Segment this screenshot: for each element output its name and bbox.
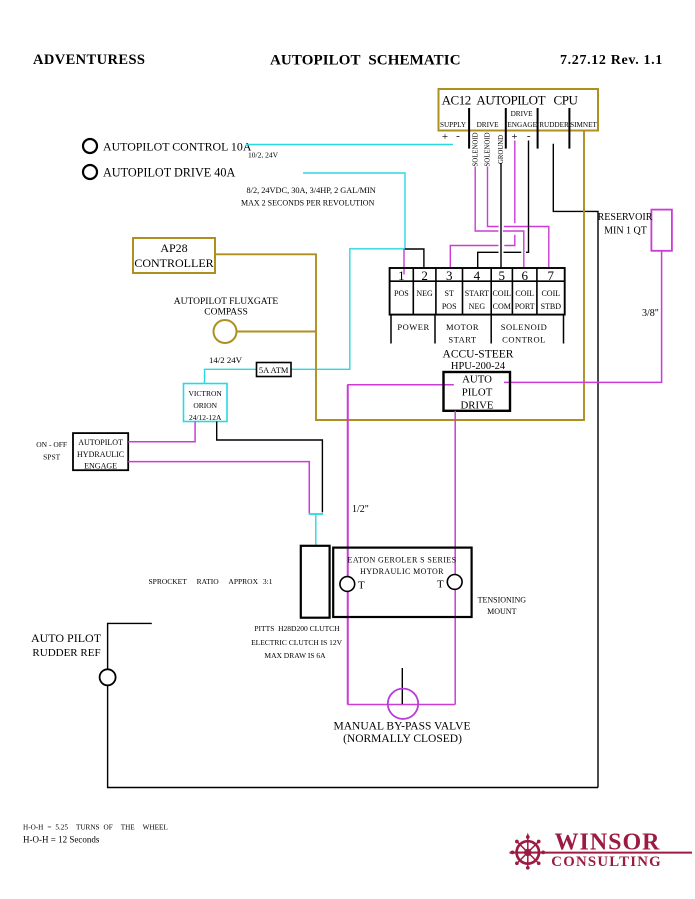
svg-text:SOLENOID: SOLENOID bbox=[501, 322, 548, 332]
svg-text:RUDDER REF: RUDDER REF bbox=[32, 647, 100, 659]
wire cyan drive supply run bbox=[205, 173, 406, 384]
wire magenta solenoid1 to terminal 6 bbox=[475, 167, 498, 232]
svg-text:H-O-H = 12 Seconds: H-O-H = 12 Seconds bbox=[23, 835, 100, 845]
pin divider drive/engage bbox=[505, 108, 507, 149]
svg-text:4: 4 bbox=[474, 268, 481, 283]
svg-text:RUDDER: RUDDER bbox=[539, 121, 569, 129]
wire black victron 12V to clutch junction bbox=[217, 422, 323, 513]
svg-text:COIL: COIL bbox=[492, 289, 511, 298]
terminal divider 1/2 bbox=[412, 268, 414, 315]
svg-text:TENSIONING: TENSIONING bbox=[478, 596, 527, 605]
svg-text:6: 6 bbox=[521, 268, 528, 283]
wire magenta hydraulic line right (to reservoir) bbox=[504, 251, 662, 383]
svg-text:NEG: NEG bbox=[469, 302, 486, 311]
svg-text:2: 2 bbox=[421, 268, 428, 283]
winsor consulting logo wheel bbox=[511, 833, 546, 870]
svg-text:24/12-12A: 24/12-12A bbox=[189, 413, 222, 422]
svg-text:HPU-200-24: HPU-200-24 bbox=[451, 361, 506, 372]
auto pilot drive box bbox=[444, 372, 511, 411]
svg-text:ADVENTURESS: ADVENTURESS bbox=[33, 52, 145, 68]
svg-text:SOLENOID: SOLENOID bbox=[485, 132, 492, 166]
svg-text:ENGAGE: ENGAGE bbox=[507, 121, 537, 129]
clutch box bbox=[301, 546, 330, 618]
wire magenta engage to victron bbox=[128, 422, 195, 442]
svg-text:-: - bbox=[527, 130, 531, 142]
victron orion converter box bbox=[184, 384, 228, 422]
svg-text:8/2, 24VDC, 30A, 3/4HP, 2 GAL/: 8/2, 24VDC, 30A, 3/4HP, 2 GAL/MIN bbox=[247, 186, 376, 195]
wire magenta bypass bottom bbox=[348, 704, 456, 706]
svg-text:STBD: STBD bbox=[541, 302, 562, 311]
wire rudder ref loop bbox=[108, 685, 598, 787]
svg-text:-: - bbox=[456, 130, 460, 142]
svg-text:DRIVE: DRIVE bbox=[477, 121, 500, 129]
pin divider engage/rudder bbox=[537, 108, 539, 149]
AP28 controller box bbox=[133, 238, 215, 273]
wire cyan clutch feed bar bbox=[309, 513, 324, 515]
fluxgate compass circle bbox=[214, 320, 237, 343]
svg-text:5: 5 bbox=[499, 268, 506, 283]
svg-text:MIN 1 QT: MIN 1 QT bbox=[604, 226, 647, 237]
svg-text:DRIVE: DRIVE bbox=[461, 400, 494, 412]
motor port fitting circle bbox=[340, 577, 355, 592]
svg-text:SOLENOID: SOLENOID bbox=[472, 132, 479, 166]
svg-text:PORT: PORT bbox=[515, 302, 535, 311]
svg-text:ELECTRIC CLUTCH IS 12V: ELECTRIC CLUTCH IS 12V bbox=[251, 638, 343, 647]
svg-text:DRIVE: DRIVE bbox=[511, 110, 534, 118]
svg-text:10/2, 24V: 10/2, 24V bbox=[248, 151, 279, 160]
hydraulic motor box bbox=[333, 548, 471, 617]
wire black drive engage - to terminal 4 bbox=[526, 141, 529, 253]
svg-text:HYDRAULIC MOTOR: HYDRAULIC MOTOR bbox=[360, 567, 444, 576]
pin divider rudder/simnet bbox=[568, 108, 570, 149]
terminal divider 5/6 bbox=[511, 268, 513, 315]
bracket right tick bbox=[563, 315, 565, 344]
svg-text:CONTROL: CONTROL bbox=[502, 335, 546, 345]
wire gold simnet network run bbox=[215, 131, 584, 421]
bypass valve stem bbox=[401, 668, 403, 704]
wire magenta solenoid2 to terminal 7 bbox=[488, 167, 499, 227]
svg-text:AUTOPILOT CONTROL 10A: AUTOPILOT CONTROL 10A bbox=[103, 140, 252, 154]
fuse 5A ATM box bbox=[257, 363, 292, 377]
svg-text:ON - OFF: ON - OFF bbox=[36, 440, 67, 449]
AC12 autopilot CPU box bbox=[439, 89, 599, 131]
svg-text:START: START bbox=[448, 335, 477, 345]
svg-text:EATON GEROLER S SERIES: EATON GEROLER S SERIES bbox=[348, 556, 457, 565]
svg-text:AUTOPILOT: AUTOPILOT bbox=[78, 438, 123, 447]
svg-text:AUTO PILOT: AUTO PILOT bbox=[31, 631, 102, 645]
svg-text:SPROCKET RATIO APPROX 3:1: SPROCKET RATIO APPROX 3:1 bbox=[149, 577, 273, 586]
svg-text:PILOT: PILOT bbox=[462, 387, 493, 399]
svg-text:AP28: AP28 bbox=[160, 241, 187, 255]
bracket left tick bbox=[390, 315, 392, 344]
wire black to terminal 2 bbox=[405, 249, 424, 269]
svg-text:START: START bbox=[465, 289, 489, 298]
bracket power/motor tick bbox=[434, 315, 436, 344]
svg-text:AC12 AUTOPILOT CPU: AC12 AUTOPILOT CPU bbox=[442, 93, 579, 108]
svg-text:CONSULTING: CONSULTING bbox=[551, 854, 662, 870]
svg-text:H-O-H = 5.25 TURNS OF THE W: H-O-H = 5.25 TURNS OF THE WHEEL bbox=[23, 824, 168, 832]
wire magenta drive engage + to terminal 3 bbox=[514, 141, 516, 224]
svg-text:COIL: COIL bbox=[515, 289, 534, 298]
svg-text:PITTS H28D200 CLUTCH: PITTS H28D200 CLUTCH bbox=[254, 624, 340, 633]
svg-text:1/2": 1/2" bbox=[352, 504, 369, 515]
wire rudder ref stub bbox=[108, 623, 152, 669]
svg-text:+: + bbox=[442, 131, 448, 143]
svg-text:ORION: ORION bbox=[193, 401, 217, 410]
svg-text:5A ATM: 5A ATM bbox=[259, 365, 289, 375]
motor stbd fitting circle bbox=[447, 575, 462, 590]
svg-text:AUTOPILOT SCHEMATIC: AUTOPILOT SCHEMATIC bbox=[270, 53, 461, 69]
breaker AUTOPILOT DRIVE 40A bbox=[83, 165, 97, 179]
svg-text:GROUND: GROUND bbox=[498, 135, 505, 164]
svg-text:POWER: POWER bbox=[397, 322, 429, 332]
svg-text:ST: ST bbox=[445, 289, 454, 298]
svg-text:CONTROLLER: CONTROLLER bbox=[134, 256, 213, 270]
svg-text:MANUAL BY-PASS VALVE: MANUAL BY-PASS VALVE bbox=[334, 721, 471, 733]
wire cyan control supply to CPU bbox=[246, 144, 453, 146]
svg-text:VICTRON: VICTRON bbox=[189, 389, 223, 398]
terminal block outer bbox=[390, 268, 565, 315]
svg-text:MOTOR: MOTOR bbox=[446, 322, 479, 332]
wire magenta 24V to terminal 1 bbox=[403, 249, 405, 275]
pin divider supply/drive bbox=[468, 108, 470, 149]
terminal divider 4/5 bbox=[490, 268, 492, 315]
rudder ref transducer circle bbox=[100, 669, 116, 685]
svg-text:3/8": 3/8" bbox=[642, 308, 659, 319]
svg-text:1: 1 bbox=[398, 268, 405, 283]
wire magenta motor stbd line bbox=[454, 411, 456, 705]
svg-text:POS: POS bbox=[442, 302, 457, 311]
svg-text:RESERVOIR: RESERVOIR bbox=[598, 212, 653, 223]
wire magenta hydraulic line left (to bypass loop) bbox=[348, 385, 454, 705]
svg-text:POS: POS bbox=[394, 289, 409, 298]
terminal block number row divider bbox=[390, 280, 565, 282]
svg-text:14/2 24V: 14/2 24V bbox=[209, 355, 243, 365]
svg-text:ENGAGE: ENGAGE bbox=[84, 462, 117, 471]
logo underline bbox=[510, 852, 693, 854]
svg-text:HYDRAULIC: HYDRAULIC bbox=[77, 450, 124, 459]
manual by-pass valve circle bbox=[388, 689, 418, 719]
bracket motor/solenoid tick bbox=[490, 315, 492, 344]
autopilot hydraulic engage switch box bbox=[73, 433, 128, 470]
svg-text:SIMNET: SIMNET bbox=[570, 121, 597, 129]
terminal divider 2/3 bbox=[435, 268, 437, 315]
svg-text:MAX DRAW IS 6A: MAX DRAW IS 6A bbox=[264, 651, 326, 660]
svg-text:AUTO: AUTO bbox=[462, 374, 492, 386]
svg-text:7: 7 bbox=[548, 268, 555, 283]
svg-text:NEG: NEG bbox=[416, 289, 433, 298]
svg-text:MAX 2 SECONDS PER REVOLUTION: MAX 2 SECONDS PER REVOLUTION bbox=[241, 199, 375, 208]
svg-text:COIL: COIL bbox=[541, 289, 560, 298]
svg-text:3: 3 bbox=[446, 268, 453, 283]
svg-text:7.27.12 Rev. 1.1: 7.27.12 Rev. 1.1 bbox=[560, 53, 663, 68]
svg-text:SUPPLY: SUPPLY bbox=[440, 121, 467, 129]
svg-text:(NORMALLY CLOSED): (NORMALLY CLOSED) bbox=[343, 733, 462, 745]
svg-text:AUTOPILOT FLUXGATE: AUTOPILOT FLUXGATE bbox=[174, 297, 279, 307]
wire gold compass to network bbox=[237, 331, 317, 333]
svg-text:ACCU-STEER: ACCU-STEER bbox=[443, 349, 514, 361]
svg-text:COMPASS: COMPASS bbox=[204, 308, 247, 318]
svg-text:COM: COM bbox=[493, 302, 511, 311]
svg-text:T: T bbox=[358, 580, 365, 592]
wire black rudder feedback bbox=[553, 144, 598, 788]
terminal divider 6/7 bbox=[536, 268, 538, 315]
svg-text:T: T bbox=[437, 579, 444, 591]
wire cyan clutch feed bbox=[315, 514, 317, 547]
wire magenta engage to clutch junction bbox=[128, 462, 309, 514]
terminal divider 3/4 bbox=[462, 268, 464, 315]
breaker AUTOPILOT CONTROL 10A bbox=[83, 139, 97, 153]
svg-text:MOUNT: MOUNT bbox=[487, 607, 516, 616]
wire black ground to terminal 5 bbox=[500, 164, 502, 270]
wire magenta motor port line bbox=[347, 385, 349, 705]
reservoir box bbox=[651, 210, 672, 251]
svg-text:AUTOPILOT DRIVE 40A: AUTOPILOT DRIVE 40A bbox=[103, 166, 235, 180]
svg-text:SPST: SPST bbox=[43, 453, 61, 462]
